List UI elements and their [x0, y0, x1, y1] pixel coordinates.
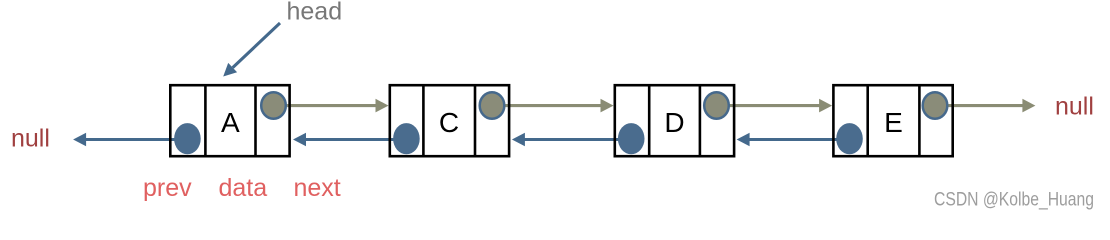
wire: next arrow E to null (olive): [947, 104, 1024, 107]
node E box: [833, 85, 952, 156]
node D prev-pointer dot: [618, 123, 645, 154]
svg-text:C: C: [439, 107, 459, 138]
wire: prev arrow C to A (blue): [305, 138, 395, 141]
svg-text:prev: prev: [143, 174, 192, 202]
svg-text:null: null: [11, 125, 50, 153]
node C next-pointer dot: [480, 92, 505, 119]
wire: prev arrow A to null (blue): [85, 138, 177, 141]
node A box: [170, 85, 289, 156]
wire: next arrow D to E (olive): [729, 104, 821, 107]
wire: prev arrow E to D (blue): [749, 138, 839, 141]
wire: next arrow C to D (olive): [504, 104, 603, 107]
wire: prev arrow D to C (blue): [524, 138, 621, 141]
svg-text:D: D: [664, 107, 684, 138]
node D box: [615, 85, 734, 156]
node A prev-pointer dot: [174, 123, 201, 154]
svg-text:next: next: [294, 174, 341, 202]
wire: next arrow A to C (olive): [285, 104, 377, 107]
node C prev-pointer dot: [393, 123, 420, 154]
svg-text:head: head: [287, 0, 343, 26]
svg-text:E: E: [884, 107, 903, 138]
head pointer arrowhead: [223, 63, 237, 77]
svg-text:data: data: [219, 174, 268, 202]
node E next-pointer dot: [923, 92, 948, 119]
node E prev-pointer dot: [836, 123, 863, 154]
node A next-pointer dot: [261, 92, 286, 119]
svg-text:CSDN @Kolbe_Huang: CSDN @Kolbe_Huang: [934, 188, 1094, 210]
svg-text:A: A: [221, 107, 240, 138]
node D next-pointer dot: [704, 92, 729, 119]
wire: head pointer arrow shaft: [233, 23, 280, 68]
node C box: [390, 85, 509, 156]
svg-text:null: null: [1055, 92, 1094, 120]
